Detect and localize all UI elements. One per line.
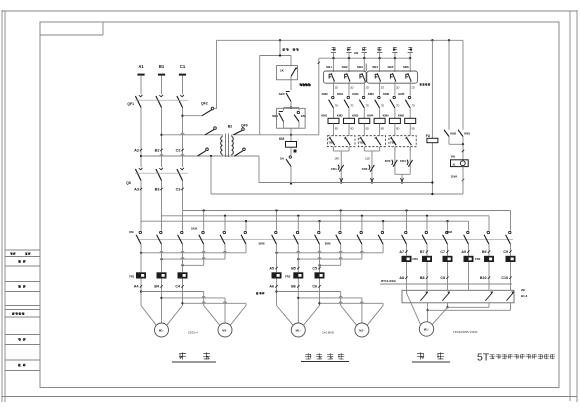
svg-text:B7: B7 — [420, 250, 425, 254]
svg-text:B1: B1 — [159, 64, 165, 69]
svg-text:KM1: KM1 — [464, 131, 470, 135]
svg-text:KM2: KM2 — [322, 92, 328, 96]
svg-text:1KM: 1KM — [191, 227, 198, 231]
svg-text:FR2: FR2 — [285, 275, 291, 279]
svg-text:B2: B2 — [155, 149, 160, 153]
svg-text:C2: C2 — [176, 149, 181, 153]
svg-text:TDA62/W55 13KW: TDA62/W55 13KW — [453, 330, 478, 334]
svg-text:KM1: KM1 — [321, 114, 327, 118]
svg-text:QF1: QF1 — [127, 102, 134, 106]
svg-text:A1: A1 — [138, 64, 144, 69]
svg-text:SB4: SB4 — [372, 65, 378, 69]
svg-text:5T: 5T — [477, 351, 490, 363]
svg-text:B3: B3 — [155, 188, 160, 192]
svg-text:B4: B4 — [154, 285, 159, 289]
svg-text:SB1: SB1 — [326, 65, 332, 69]
svg-text:A2: A2 — [134, 149, 139, 153]
svg-text:15D: 15D — [365, 157, 370, 161]
svg-text:C4: C4 — [175, 285, 180, 289]
svg-text:C7: C7 — [440, 250, 445, 254]
svg-text:3KM: 3KM — [325, 242, 332, 246]
svg-text:C6: C6 — [312, 285, 317, 289]
svg-text:KM4: KM4 — [367, 114, 373, 118]
svg-text:A4: A4 — [134, 285, 139, 289]
svg-text:SB3: SB3 — [357, 65, 363, 69]
svg-text:FR1: FR1 — [129, 275, 135, 279]
svg-text:7D: 7D — [381, 104, 384, 108]
svg-text:2D: 2D — [366, 86, 369, 90]
svg-text:QS: QS — [126, 181, 132, 185]
svg-text:FR2: FR2 — [362, 167, 368, 171]
svg-text:YB2: YB2 — [359, 140, 365, 144]
svg-text:M1~: M1~ — [424, 327, 430, 331]
svg-text:FR3: FR3 — [413, 257, 419, 261]
svg-text:SB5: SB5 — [388, 65, 394, 69]
svg-text:9D: 9D — [335, 127, 338, 131]
svg-text:2W: 2W — [451, 154, 456, 158]
svg-text:SB0: SB0 — [279, 92, 285, 96]
svg-text:C5: C5 — [312, 266, 317, 270]
svg-text:9D: 9D — [366, 127, 369, 131]
svg-text:KM3: KM3 — [352, 114, 358, 118]
svg-text:B8: B8 — [420, 276, 425, 280]
svg-text:KM: KM — [279, 137, 284, 141]
svg-text:7D: 7D — [411, 104, 414, 108]
svg-text:KM2: KM2 — [337, 114, 343, 118]
svg-text:FR4: FR4 — [475, 257, 481, 261]
svg-text:B5: B5 — [291, 266, 296, 270]
svg-text:B1.3: B1.3 — [521, 294, 528, 298]
svg-text:B9: B9 — [482, 250, 487, 254]
svg-text:B10: B10 — [480, 276, 487, 280]
svg-text:2D: 2D — [381, 86, 384, 90]
svg-text:SB2: SB2 — [342, 65, 348, 69]
svg-text:YB1: YB1 — [329, 140, 335, 144]
svg-text:KM6: KM6 — [383, 92, 389, 96]
svg-text:FR1: FR1 — [331, 167, 337, 171]
svg-text:QF0: QF0 — [241, 124, 248, 128]
svg-text:A6: A6 — [269, 285, 274, 289]
svg-text:KM3: KM3 — [368, 92, 374, 96]
svg-text:9D: 9D — [381, 127, 384, 131]
svg-text:7D: 7D — [396, 104, 399, 108]
svg-text:QF2: QF2 — [201, 102, 208, 106]
svg-text:2×0.8KW: 2×0.8KW — [322, 331, 334, 335]
svg-text:3L: 3L — [453, 162, 457, 166]
svg-text:LW: LW — [354, 51, 359, 55]
svg-text:KM1: KM1 — [337, 92, 343, 96]
svg-text:KM4: KM4 — [352, 92, 358, 96]
svg-text:SB1: SB1 — [272, 114, 278, 118]
svg-text:M1~: M1~ — [159, 328, 165, 332]
svg-text:C3: C3 — [176, 188, 181, 192]
svg-text:M1~: M1~ — [359, 328, 365, 332]
svg-text:A5: A5 — [269, 266, 274, 270]
svg-text:A7: A7 — [399, 250, 404, 254]
svg-text:KM6: KM6 — [398, 114, 404, 118]
svg-text:2KM: 2KM — [259, 242, 266, 246]
svg-text:B6: B6 — [291, 285, 296, 289]
svg-text:A3: A3 — [134, 188, 139, 192]
svg-text:M1~: M1~ — [222, 328, 228, 332]
svg-text:M1~: M1~ — [296, 328, 302, 332]
svg-text:2D: 2D — [350, 86, 353, 90]
svg-text:ZD51-4: ZD51-4 — [188, 331, 198, 335]
svg-text:7D: 7D — [366, 104, 369, 108]
svg-text:9D: 9D — [396, 127, 399, 131]
svg-text:2D: 2D — [396, 86, 399, 90]
svg-text:C9: C9 — [503, 250, 508, 254]
svg-text:KM2: KM2 — [450, 131, 456, 135]
svg-text:4KM: 4KM — [446, 230, 453, 234]
svg-text:14D: 14D — [334, 157, 339, 161]
svg-text:B2: B2 — [228, 124, 233, 128]
svg-text:YB3: YB3 — [390, 140, 396, 144]
svg-text:FR4: FR4 — [400, 159, 406, 163]
svg-text:SB6: SB6 — [403, 65, 409, 69]
svg-text:9D: 9D — [350, 127, 353, 131]
svg-text:C10: C10 — [501, 276, 508, 280]
svg-text:15VA: 15VA — [451, 175, 458, 179]
svg-text:FR3: FR3 — [385, 159, 391, 163]
svg-text:A8: A8 — [399, 276, 404, 280]
svg-text:KM5: KM5 — [383, 114, 389, 118]
svg-text:2D: 2D — [335, 86, 338, 90]
svg-text:7D: 7D — [350, 104, 353, 108]
svg-text:C1: C1 — [180, 64, 186, 69]
svg-text:9D: 9D — [411, 127, 414, 131]
svg-text:KM: KM — [129, 230, 134, 234]
svg-text:KM: KM — [301, 114, 306, 118]
svg-text:KM5: KM5 — [398, 92, 404, 96]
svg-text:RT12-6/1B: RT12-6/1B — [381, 279, 397, 283]
svg-text:A9: A9 — [461, 250, 466, 254]
svg-text:7D: 7D — [335, 104, 338, 108]
svg-text:2D: 2D — [411, 86, 414, 90]
svg-text:C8: C8 — [440, 276, 445, 280]
svg-text:FU: FU — [426, 134, 431, 138]
